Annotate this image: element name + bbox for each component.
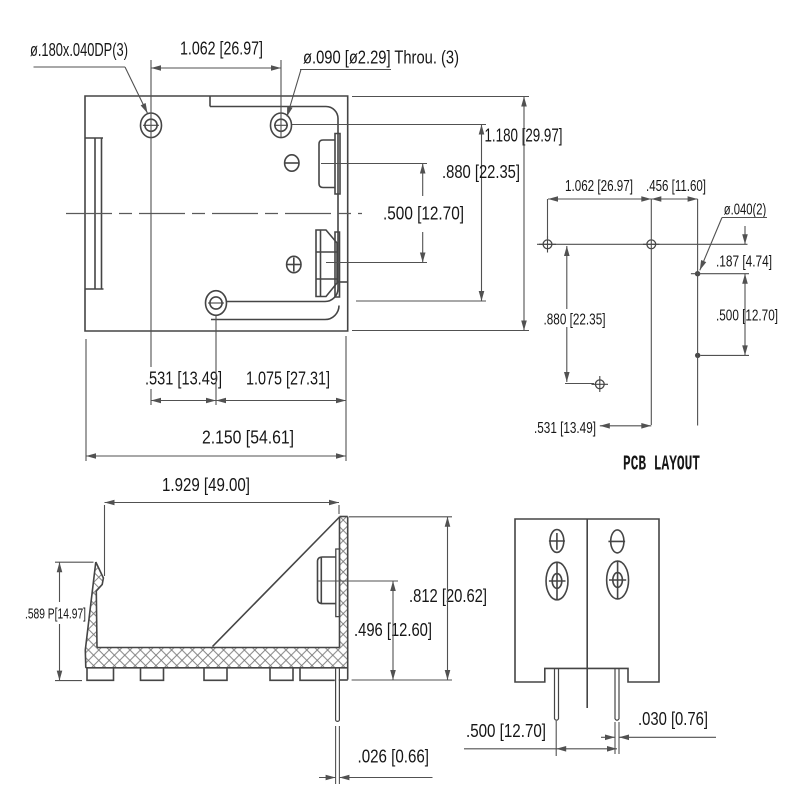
dim .589 text [25,606,86,623]
dim 1.929 text [162,475,250,495]
front left rivet [546,562,568,600]
svg-text:1.075 [27.31]: 1.075 [27.31] [246,369,330,389]
front dim .500 line [464,748,617,750]
pcb dim .187 extension [691,273,749,275]
front plus symbol [549,530,565,553]
dim 1.062 top line [151,67,281,69]
leader thru hole [287,70,391,117]
dim .589 line [59,562,61,680]
svg-text:.026 [0.66]: .026 [0.66] [358,747,430,767]
svg-text:ø.040(2): ø.040(2) [724,202,767,219]
dim .531 line [151,400,216,402]
svg-text:2.150 [54.61]: 2.150 [54.61] [202,428,294,448]
dim .026 arrows [319,777,433,779]
svg-text:.880 [22.35]: .880 [22.35] [442,162,520,182]
pcb dim .500 text [716,308,778,325]
pcb dim 1.062 text [565,178,633,195]
pcb pin pad lower [695,353,700,358]
pcb dim .500 line [744,274,746,356]
side view foot 4 [270,668,293,680]
dim .812 extensions [349,517,452,680]
pcb label pin dia [724,202,767,219]
pcb hole2 [643,240,660,249]
pcb leader pin dia [700,218,767,271]
pcb hole1 extension [547,199,549,240]
side view snap plate [336,549,340,617]
dim 1.929 extensions [105,505,340,576]
svg-text:PCB LAYOUT: PCB LAYOUT [623,454,700,477]
label thru hole [303,48,459,68]
svg-text:.030 [0.76]: .030 [0.76] [638,709,708,729]
negative terminal plate [335,134,340,195]
side view gusset diagonal [213,517,340,647]
top view inner wall upper edge [210,96,338,302]
side view hatching [85,517,347,668]
side view foot 5 [300,668,335,680]
dim .500 text [383,204,464,224]
side view base top edge [97,647,340,649]
dim .812 text [409,586,487,606]
extension H1 vertical [150,60,152,405]
svg-text:ø.090 [ø2.29] Throu. (3): ø.090 [ø2.29] Throu. (3) [303,48,459,68]
pcb layout caption [623,454,700,477]
hole H2 top-right [271,113,292,138]
front pin 2 [615,668,619,720]
dim 2.150 line [86,455,346,457]
dim .880 extensions [321,164,427,263]
side view pin [336,668,340,721]
pcb hole2 extension [650,199,652,425]
dim 2.150 text [202,428,294,448]
positive terminal plate [335,232,340,297]
hole H1 top-left [141,113,162,138]
front view divider [586,519,588,708]
side view base bottom edge [86,667,348,669]
top view body outline [85,96,348,331]
dim .589 extensions [55,562,94,680]
pcb pin pad upper [695,271,700,276]
svg-text:1.062 [26.97]: 1.062 [26.97] [565,178,633,195]
side view foot 3 [204,668,227,680]
pcb dim 1.062 line [548,198,651,200]
plus symbol [287,256,301,272]
dim .496 extension [318,580,398,582]
side view right wall [340,517,348,680]
overall right dim line [523,97,525,331]
dim 1.929 line [105,502,340,504]
svg-text:.589 P[14.97]: .589 P[14.97] [25,606,86,623]
svg-text:.880 [22.35]: .880 [22.35] [544,312,606,329]
svg-text:.456 [11.60]: .456 [11.60] [646,178,706,195]
pcb pin extension [697,199,699,426]
pcb hole1 [539,236,556,253]
side view wall foot [339,679,348,681]
overall right extension lines [352,97,529,331]
dim .812 line [447,517,449,680]
dim .026 text [358,747,430,767]
svg-text:.531 [13.49]: .531 [13.49] [145,369,222,389]
svg-text:ø.180x.040DP(3): ø.180x.040DP(3) [30,40,128,60]
dim .880 text [442,162,520,182]
dim 1.075 line [216,400,346,402]
dim 1.075 text [246,369,330,389]
dim .496 line [392,581,394,680]
minus symbol [285,155,299,171]
negative snap terminal [319,140,335,188]
dim .026 extensions [336,726,340,784]
pcb dim .456 text [646,178,706,195]
pcb dim .880 text [544,312,606,329]
extension H2 vertical [280,60,282,137]
svg-text:1.929 [49.00]: 1.929 [49.00] [162,475,250,495]
front dim .500 text [466,721,546,741]
pcb centreline [537,243,748,245]
svg-text:.500 [12.70]: .500 [12.70] [466,721,546,741]
dim .496 text [354,620,432,640]
pcb dim .456 line [651,198,697,200]
extension H3 vertical [215,316,217,405]
front pin 1 [555,668,559,720]
dim 1.062 top text [180,39,263,59]
side view snap button [318,557,337,604]
hole H3 bottom [206,291,227,316]
front view body outline [515,519,659,682]
side view left wall tip [96,562,104,648]
top view wall step line [339,281,348,283]
pcb dim .187 arrow [744,226,746,244]
pcb dim .880 line [566,246,568,382]
dim 1.180 line [481,125,483,302]
dim 1.180 extensions [292,125,486,302]
front pin1 centre extension [555,721,557,756]
side view foot 2 [141,668,164,680]
dim 1.180 text [485,126,563,146]
front dim .030 arrows [601,736,716,738]
top view left flange [85,138,104,289]
pcb dim .531 text [534,420,596,437]
front right rivet [607,561,629,599]
pcb dim .500 extension [701,354,750,356]
pcb hole3 [592,376,609,392]
leader hole depth [34,67,148,113]
extension right lower vertical [345,336,347,461]
dim .531 text [145,369,222,389]
extension left lower vertical [85,339,87,461]
top view centreline [66,213,362,215]
positive snap terminal [316,230,337,297]
svg-text:.500 [12.70]: .500 [12.70] [716,308,778,325]
side view foot 1 [87,668,114,680]
front dim .030 text [638,709,708,729]
front minus symbol [608,530,625,553]
pcb dim .880 extension [565,383,594,385]
front pin2 edge extensions [615,722,619,754]
side view left wall outer edge [85,562,96,668]
svg-text:.187 [4.74]: .187 [4.74] [716,254,772,271]
pcb dim .531 line [600,425,652,427]
svg-text:1.062 [26.97]: 1.062 [26.97] [180,39,263,59]
label hole depth [30,40,128,60]
svg-text:.531 [13.49]: .531 [13.49] [534,420,596,437]
svg-text:.500 [12.70]: .500 [12.70] [383,204,464,224]
top view inner wall lower edge [211,306,339,320]
dim .500 line [422,164,424,263]
pcb dim .187 text [716,254,772,271]
